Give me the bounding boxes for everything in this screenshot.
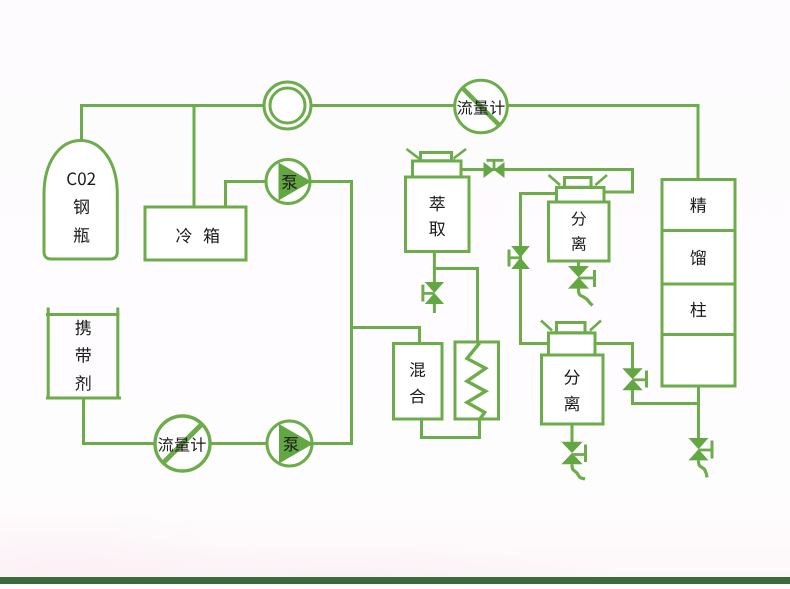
CO2 cylinder 钢瓶 — [44, 141, 117, 260]
label 馏 — [690, 250, 705, 266]
wire mixer to heat-exchanger U — [422, 418, 480, 438]
extractor flange line — [418, 159, 456, 162]
separator S1 lid — [565, 178, 592, 188]
separator S1 bolt left — [549, 175, 561, 185]
pump P1 impeller triangle — [279, 163, 312, 201]
valve V6 separator S2 outlet — [622, 368, 646, 390]
label 箱 — [204, 228, 220, 244]
pump P2 circle — [267, 421, 312, 466]
wire extractor bottom — [433, 250, 436, 284]
label 取 — [429, 222, 445, 237]
label 柱 — [690, 302, 706, 318]
wire separator S2 bottom stub — [571, 423, 574, 443]
label 流 FM1 — [457, 100, 472, 115]
label C02 — [67, 172, 95, 185]
column divider 1 — [662, 229, 735, 232]
column divider 2 — [662, 283, 735, 286]
label 分 S1 — [572, 211, 587, 225]
label 混 — [410, 362, 425, 377]
label 量 FM1 — [474, 101, 489, 115]
flow meter FM1 circle — [455, 80, 508, 133]
pump P2 impeller triangle — [279, 424, 313, 464]
wire column bottom drain — [697, 385, 700, 440]
heat exchanger coil zigzag — [467, 343, 486, 419]
drain squiggle S1 — [579, 289, 593, 306]
label 合 — [410, 388, 425, 403]
pump P1 circle — [266, 160, 310, 204]
wire top header — [82, 106, 699, 182]
label 精 — [690, 197, 706, 213]
label 瓶 — [74, 227, 90, 243]
wire cold-box riser — [193, 104, 196, 208]
separator S1 分离 body — [549, 202, 610, 261]
carrier agent tank 携带剂 — [46, 308, 121, 399]
separator S2 cap — [549, 333, 596, 355]
label 冷 — [176, 228, 192, 244]
flow meter FM2 circle — [155, 416, 210, 471]
wire cold-box to pump P1 — [226, 182, 265, 208]
label 离 S2 — [565, 396, 580, 412]
label 萃 — [430, 196, 445, 212]
wire branch to mixer — [352, 328, 420, 346]
drain squiggle S2 — [572, 464, 585, 479]
extractor lid — [421, 153, 452, 162]
sight glass double circle — [264, 82, 311, 129]
wire valve V6 to column drain — [633, 389, 699, 404]
wire extractor valve drain stub — [433, 302, 436, 313]
heat exchanger box — [455, 342, 499, 419]
separator S2 bolt right — [590, 321, 601, 331]
valve V5 separator S2 bottom — [561, 442, 585, 464]
wire separator S1 bottom stub — [577, 260, 580, 268]
label 泵 P2 — [284, 437, 299, 451]
separator S2 lid — [557, 323, 586, 334]
valve V7 column bottom — [689, 438, 713, 460]
separator S2 bolt left — [541, 321, 552, 331]
label 泵 P1 — [282, 175, 297, 189]
wire pump P2 outlet — [311, 442, 353, 445]
wire extractor top to separator S1 — [461, 170, 633, 193]
separator S2 flange line — [551, 331, 593, 334]
cold box 冷箱 — [145, 207, 246, 260]
valve V2 extractor bottom — [423, 282, 444, 304]
wire extractor branch to heat exchanger — [434, 269, 477, 344]
wire carrier to flowmeter FM2 — [84, 398, 157, 444]
label 剂 — [75, 375, 90, 391]
valve V3 separator line — [509, 246, 530, 269]
mixer 混合 — [394, 344, 443, 420]
wire main vertical — [350, 180, 353, 445]
separator S2 分离 body — [542, 355, 604, 424]
wire FM2 to pump P2 — [209, 442, 267, 445]
label 计 FM2 — [191, 437, 206, 452]
rectification column 精馏柱 — [662, 180, 735, 387]
extractor bolt left — [407, 149, 420, 159]
label 离 S1 — [572, 236, 586, 251]
wire separator S1 cap to valve V3 to separator S2 — [521, 194, 558, 344]
wire pump P1 outlet — [309, 180, 353, 183]
flow meter FM1 diagonal — [462, 88, 500, 127]
valve V4 separator S1 bottom — [568, 266, 595, 289]
flow meter FM2 diagonal — [162, 423, 203, 464]
column divider 3 — [662, 333, 735, 336]
separator S1 bolt right — [596, 175, 608, 185]
label 钢 — [74, 199, 89, 215]
label 分 S2 — [564, 370, 580, 385]
separator S1 flange line — [559, 186, 598, 189]
label 流 FM2 — [158, 437, 173, 452]
extractor cap — [413, 161, 462, 177]
bottom dark green footer bar — [0, 577, 790, 584]
drain squiggle column — [699, 460, 708, 477]
label 带 — [76, 347, 91, 363]
label 量 FM2 — [175, 438, 190, 452]
valve V1 extractor outlet — [484, 160, 505, 178]
extractor vessel 萃取 body — [406, 177, 470, 252]
extractor bolt right — [454, 149, 467, 159]
separator S1 cap — [557, 188, 605, 203]
wire separator S2 cap to valve V6 — [595, 344, 633, 371]
label 计 FM1 — [490, 100, 505, 115]
label 携 — [75, 320, 90, 336]
